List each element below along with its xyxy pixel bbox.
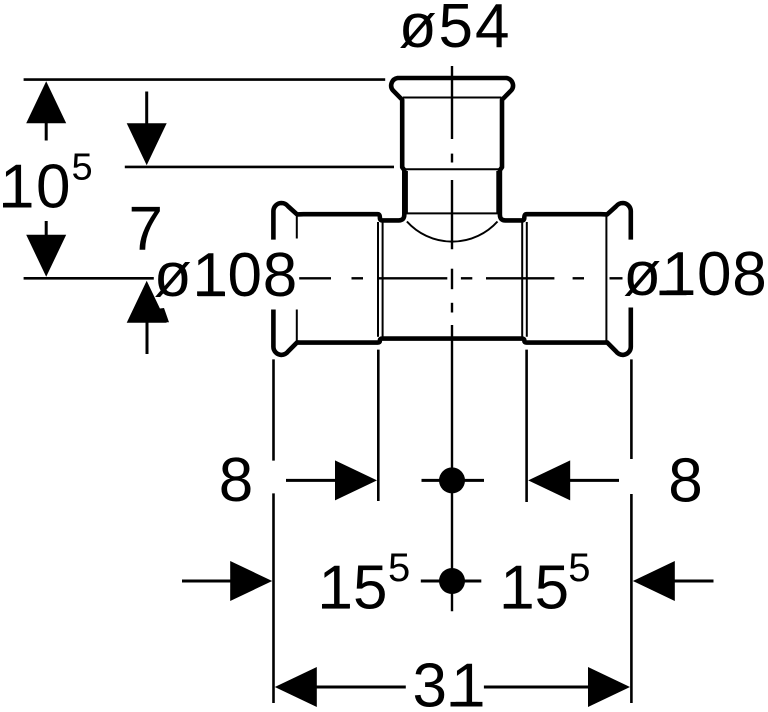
svg-text:5: 5 xyxy=(72,147,93,189)
svg-text:5: 5 xyxy=(568,546,590,590)
branch inner bore line left xyxy=(406,171,408,213)
node: vertical centerline of branch (dash-dot) xyxy=(451,66,453,611)
right socket wall line xyxy=(605,217,607,341)
dimension 31: left arrow xyxy=(275,667,317,707)
saddle arc of branch into run pipe xyxy=(407,222,498,242)
wire: extension line at branch socket step level xyxy=(125,166,394,169)
tee fitting: upper outline (branch socket, bead and run sockets) xyxy=(273,78,630,240)
node: center point marker upper xyxy=(439,467,465,493)
dimension 10^5: upward arrow xyxy=(26,81,66,123)
branch socket mouth line xyxy=(403,97,502,99)
svg-text:ø54: ø54 xyxy=(399,0,512,61)
dimension 7: upward arrow xyxy=(127,281,167,323)
svg-text:ø108: ø108 xyxy=(623,240,767,309)
dimension 8 left: line and arrow xyxy=(286,479,341,482)
svg-text:15: 15 xyxy=(500,554,569,623)
wire: dimension line at pipe axis level (left) xyxy=(24,277,154,280)
dimension 15.5 right: arrow and tail line xyxy=(633,561,675,601)
branch inner bore line right xyxy=(496,171,498,213)
right socket step lines xyxy=(521,222,523,337)
svg-text:5: 5 xyxy=(388,546,410,590)
left socket step lines xyxy=(377,222,379,337)
svg-text:ø108: ø108 xyxy=(154,241,298,310)
left socket wall line (gapped for label) xyxy=(296,217,298,239)
node: center point marker lower xyxy=(439,568,465,594)
dimension 15.5 left: tail line and arrow xyxy=(182,580,234,583)
svg-text:8: 8 xyxy=(668,447,702,516)
branch joint line xyxy=(406,212,498,214)
wire: vertical extension lines below fitting xyxy=(274,350,632,703)
svg-text:15: 15 xyxy=(319,554,388,623)
dimension 8 right: arrow and line xyxy=(528,460,570,500)
svg-text:10: 10 xyxy=(0,153,72,222)
branch pipe stop line xyxy=(405,168,500,170)
dimension 7: downward arrow xyxy=(127,123,167,165)
dimension 31: right arrow xyxy=(484,686,590,689)
tee fitting: thin detail lines xyxy=(297,98,607,341)
tee fitting: lower outline (run pipe bottom with end beads) xyxy=(273,308,630,355)
svg-text:8: 8 xyxy=(219,446,253,515)
node: horizontal centerline of run pipe (dash-dot) xyxy=(299,277,622,279)
dimension 10^5: downward arrow xyxy=(26,235,66,277)
wire: top extension line at bead top level xyxy=(24,78,386,81)
